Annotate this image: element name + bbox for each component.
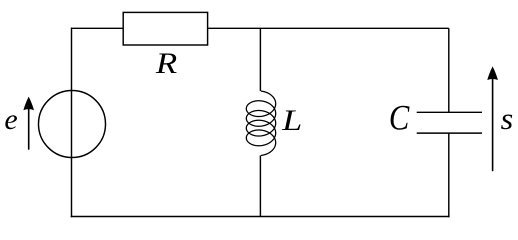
capacitor C bottom plate	[417, 132, 482, 134]
wire top-right: resistor to right rail through node at top of L branch	[208, 27, 449, 29]
wire top-left: left rail to resistor	[72, 27, 124, 29]
wire middle branch lower	[259, 155, 261, 216]
resistor R (box)	[123, 12, 207, 45]
inductor L (coil)	[246, 91, 275, 155]
voltage source e (european circle symbol)	[39, 91, 106, 158]
wire bottom	[71, 216, 450, 218]
svg-text:C: C	[389, 97, 410, 137]
arrow s (head)	[487, 66, 498, 80]
svg-text:R: R	[155, 47, 177, 80]
svg-text:e: e	[4, 104, 17, 136]
svg-text:s: s	[501, 101, 514, 136]
arrow e (shaft)	[28, 106, 30, 150]
wire left rail	[71, 28, 73, 218]
wire right rail upper	[448, 28, 450, 112]
wire middle branch upper	[259, 28, 261, 91]
wire right rail lower	[448, 133, 450, 217]
svg-text:L: L	[281, 104, 302, 137]
arrow e (head)	[23, 97, 34, 111]
capacitor C top plate	[417, 111, 482, 113]
arrow s (shaft)	[492, 76, 494, 171]
